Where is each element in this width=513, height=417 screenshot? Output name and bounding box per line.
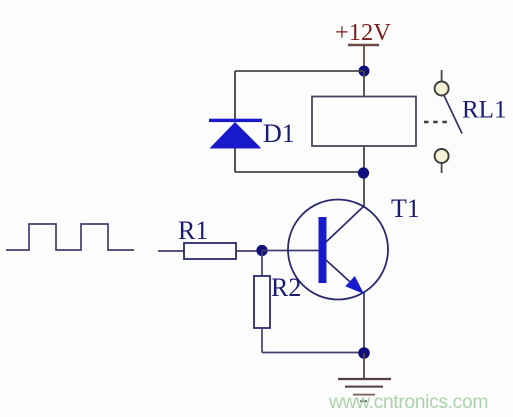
relay coil RL1 box (312, 97, 416, 147)
node J1 junction dot (359, 66, 370, 77)
diode D1 (209, 119, 262, 149)
wire base node to transistor base (262, 250, 319, 252)
wire to ground (363, 353, 365, 379)
transistor T1 body (288, 200, 388, 300)
input square wave (6, 224, 134, 250)
wire base node down to R2 (261, 251, 263, 277)
wire input to R1 (158, 250, 184, 252)
relay contact bottom terminal (435, 149, 449, 163)
svg-text:R1: R1 (178, 216, 208, 245)
wire +12V to junction (363, 46, 365, 71)
svg-text:T1: T1 (391, 194, 420, 223)
transistor T1 base bar (319, 217, 327, 283)
wire diode top vertical (234, 71, 236, 119)
relay armature (444, 96, 462, 134)
svg-text:+12V: +12V (335, 19, 391, 46)
svg-text:RL1: RL1 (462, 97, 506, 124)
wire relay bottom to collector (363, 146, 365, 207)
relay contact top stub (441, 70, 443, 81)
power rail tick (348, 44, 379, 46)
svg-text:D1: D1 (263, 119, 295, 148)
node J4 base junction dot (256, 245, 267, 256)
resistor R2 (254, 276, 270, 328)
transistor emitter line (326, 260, 360, 291)
relay contact bottom stub (441, 164, 443, 174)
svg-text:R2: R2 (271, 273, 301, 302)
relay actuation dashed link (424, 121, 448, 124)
wire diode bottom vertical (234, 148, 236, 172)
wire top horizontal to diode (235, 70, 364, 72)
wire R1 to base node (236, 250, 262, 252)
relay contact top terminal (435, 82, 449, 96)
wire R2 bottom down (261, 328, 263, 353)
svg-text:www.cntronics.com: www.cntronics.com (328, 392, 488, 413)
node J3 junction dot (358, 347, 370, 359)
wire bottom horizontal diode to rail (235, 171, 364, 173)
wire emitter down (363, 292, 365, 353)
node J2 junction dot (358, 167, 369, 178)
transistor collector line (326, 206, 364, 242)
ground (338, 379, 391, 401)
resistor R1 (184, 243, 236, 259)
wire junction to relay top (363, 71, 365, 96)
wire R2 to emitter node (262, 352, 364, 354)
transistor emitter arrow (345, 276, 364, 294)
